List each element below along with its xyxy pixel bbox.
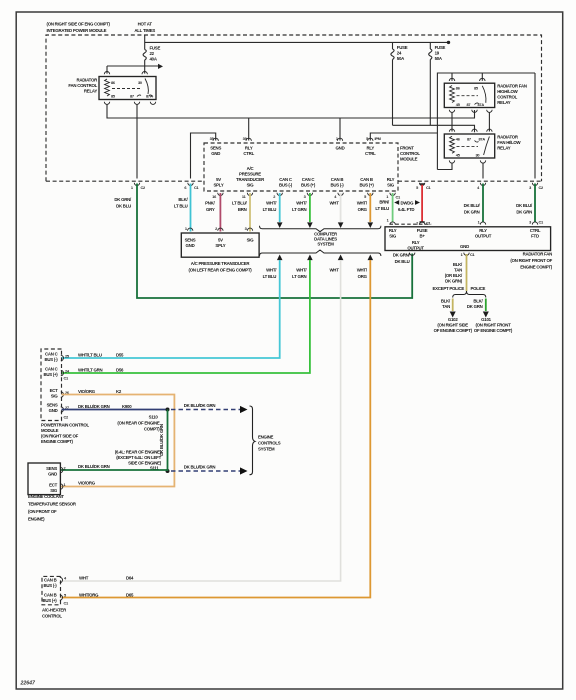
radiator fan hi/low relay R3 bbox=[444, 129, 494, 163]
svg-text:SIG: SIG bbox=[387, 183, 395, 188]
svg-text:TAN: TAN bbox=[442, 304, 450, 309]
svg-text:A/C: A/C bbox=[247, 166, 255, 171]
svg-text:87A: 87A bbox=[479, 136, 486, 141]
dashed wire DK BLU/DK GRN S110 to engine controls system bbox=[171, 403, 248, 413]
A/C heater control dashed box bbox=[42, 576, 61, 604]
svg-text:ENGINE: ENGINE bbox=[258, 435, 274, 440]
svg-text:D64: D64 bbox=[126, 576, 134, 581]
svg-text:50A: 50A bbox=[435, 56, 443, 61]
svg-text:ECT: ECT bbox=[50, 388, 59, 393]
svg-text:CTRL: CTRL bbox=[365, 151, 376, 156]
svg-text:87A: 87A bbox=[478, 102, 485, 107]
svg-text:DK BLU/: DK BLU/ bbox=[516, 203, 533, 208]
svg-text:BUS (-): BUS (-) bbox=[45, 357, 59, 362]
wire BLK/TAN ground feed from radiator fan GND bbox=[445, 254, 467, 291]
svg-text:(ON REAR OF ENGINE: (ON REAR OF ENGINE bbox=[117, 421, 159, 426]
svg-text:CAN B: CAN B bbox=[44, 578, 57, 583]
wire WHT/LT BLU CAN C minus lower to PCM bbox=[62, 255, 283, 359]
svg-text:DK BLU/DK GRN: DK BLU/DK GRN bbox=[78, 404, 110, 409]
svg-text:WHT/: WHT/ bbox=[266, 268, 277, 273]
svg-text:SPLY: SPLY bbox=[214, 183, 224, 188]
wire DK GRN/DK BLU from C2 pin 1 to radiator fan RLY OUTPUT bbox=[114, 184, 412, 299]
svg-text:30: 30 bbox=[138, 80, 142, 85]
svg-text:DK BLU/DK GRN: DK BLU/DK GRN bbox=[78, 464, 110, 469]
svg-text:ENGINE COMPT): ENGINE COMPT) bbox=[520, 265, 553, 270]
wire PNK/GRY FCM pin16 to transducer pin 2 bbox=[205, 193, 220, 232]
svg-text:CAN B: CAN B bbox=[44, 593, 57, 598]
svg-text:DK GRN: DK GRN bbox=[467, 304, 483, 309]
svg-text:SYSTEM: SYSTEM bbox=[317, 242, 334, 247]
FCM top pin arcs bbox=[213, 138, 373, 141]
svg-text:ENGINE COMPT): ENGINE COMPT) bbox=[41, 439, 74, 444]
svg-text:FUSE: FUSE bbox=[397, 45, 408, 50]
wire WHT CAN B minus upper bbox=[329, 193, 343, 228]
svg-text:FUSE: FUSE bbox=[417, 228, 428, 233]
A/C heater control label bbox=[42, 608, 67, 619]
wire LT BLU/BRN FCM pin11 to transducer pin 3 bbox=[232, 193, 250, 232]
IPM connector C1 pin 5 / C1 pin 4 / C2 pin 3 bbox=[416, 183, 544, 190]
svg-text:GND: GND bbox=[48, 472, 57, 477]
Front Control Module dashed box bbox=[204, 143, 398, 191]
node HOT AT ALL TIMES bbox=[134, 22, 155, 34]
IPM connector C2 pin 1 bbox=[131, 183, 146, 190]
svg-text:RELAY: RELAY bbox=[84, 89, 97, 94]
svg-text:GRY: GRY bbox=[206, 207, 215, 212]
svg-text:WHT/: WHT/ bbox=[357, 201, 368, 206]
PCM pin arcs and numbers bbox=[61, 354, 70, 420]
svg-text:ENGINE COOLANT: ENGINE COOLANT bbox=[28, 494, 64, 499]
svg-text:BRN: BRN bbox=[238, 207, 247, 212]
svg-text:87: 87 bbox=[130, 94, 134, 99]
svg-text:MODULE: MODULE bbox=[400, 157, 418, 162]
svg-text:87A: 87A bbox=[146, 94, 153, 99]
svg-text:BUS (+): BUS (+) bbox=[43, 372, 58, 377]
ground G101 bbox=[474, 317, 513, 333]
PCM label bbox=[41, 423, 89, 445]
svg-text:BLK/: BLK/ bbox=[441, 299, 451, 304]
radiator fan bottom pin arcs bbox=[410, 252, 476, 257]
radiator fan label bbox=[510, 252, 552, 270]
svg-text:TEMPERATURE SENSOR: TEMPERATURE SENSOR bbox=[28, 502, 77, 507]
fuse 19 50A bbox=[429, 42, 446, 125]
svg-text:FUSE: FUSE bbox=[150, 46, 161, 51]
svg-text:FAN HI/LOW: FAN HI/LOW bbox=[497, 140, 521, 145]
svg-text:CONTROLS: CONTROLS bbox=[258, 441, 281, 446]
svg-text:RLY: RLY bbox=[387, 177, 395, 182]
svg-text:PNK/: PNK/ bbox=[205, 201, 215, 206]
svg-text:MODULE: MODULE bbox=[41, 428, 59, 433]
A/C pressure transducer box bbox=[181, 226, 259, 257]
computer data lines lower brace bbox=[260, 250, 381, 256]
svg-text:LT BLU/: LT BLU/ bbox=[232, 201, 248, 206]
Integrated Power Module label bbox=[47, 22, 111, 34]
Front Control Module label bbox=[400, 146, 420, 162]
svg-text:ALL TIMES: ALL TIMES bbox=[134, 28, 155, 33]
wire VIO/ORG ECT signal loop PCM pin 26 to ECT sensor pin 1 bbox=[61, 395, 174, 487]
svg-text:GND: GND bbox=[336, 146, 345, 151]
splice S110 bbox=[117, 408, 169, 432]
Integrated Power Module dashed box bbox=[46, 35, 542, 181]
svg-text:87: 87 bbox=[467, 136, 471, 141]
svg-text:D56: D56 bbox=[116, 368, 124, 373]
svg-text:6.4L FTD: 6.4L FTD bbox=[398, 207, 414, 212]
splice S111 bbox=[150, 466, 170, 474]
svg-text:LT BLU: LT BLU bbox=[375, 206, 389, 211]
wire BRN/LT BLU FCM RLY SIG to radiator fan bbox=[375, 193, 392, 223]
svg-text:DWDG: DWDG bbox=[401, 201, 415, 206]
svg-text:(ON RIGHT FRONT OF: (ON RIGHT FRONT OF bbox=[510, 258, 552, 263]
svg-text:TRANSDUCER: TRANSDUCER bbox=[236, 177, 265, 182]
svg-text:WHT/: WHT/ bbox=[296, 201, 307, 206]
svg-text:WHT/: WHT/ bbox=[266, 201, 277, 206]
wire DK BLU/DK GRN IPM pin 4 to radiator fan RLY OUTPUT bbox=[464, 184, 483, 225]
engine coolant temperature sensor box bbox=[28, 463, 67, 495]
svg-text:DK GRN/: DK GRN/ bbox=[393, 253, 411, 258]
label 6.4L engine note bbox=[115, 450, 162, 466]
svg-text:POWERTRAIN CONTROL: POWERTRAIN CONTROL bbox=[41, 423, 89, 428]
svg-text:SIG: SIG bbox=[389, 233, 397, 238]
engine coolant temperature sensor label bbox=[28, 494, 77, 522]
svg-text:RELAY: RELAY bbox=[497, 100, 510, 105]
svg-text:ENGINE): ENGINE) bbox=[28, 517, 45, 522]
svg-text:K2: K2 bbox=[116, 389, 122, 394]
svg-text:SIG: SIG bbox=[50, 488, 58, 493]
wire relay R2 coil low to relay R3 coil bbox=[451, 112, 453, 132]
svg-text:K900: K900 bbox=[122, 404, 132, 409]
svg-text:(ON FRONT OF: (ON FRONT OF bbox=[28, 509, 57, 514]
svg-text:WHT/: WHT/ bbox=[357, 268, 368, 273]
fuse 22 40A bbox=[143, 35, 160, 66]
svg-text:40A: 40A bbox=[150, 57, 158, 62]
svg-text:RLY: RLY bbox=[412, 240, 420, 245]
svg-text:CONTROL: CONTROL bbox=[400, 151, 420, 156]
FCM internal labels bottom row bbox=[214, 166, 395, 188]
svg-text:S110: S110 bbox=[149, 415, 159, 420]
wire WHT/LT BLU CAN C minus upper bbox=[263, 193, 283, 228]
svg-text:CAN C: CAN C bbox=[302, 177, 316, 182]
fuse 24 50A bbox=[391, 42, 408, 125]
A/C heater control internal labels bbox=[42, 578, 57, 604]
svg-text:CAN B: CAN B bbox=[360, 177, 373, 182]
FCM top pin numbers bbox=[210, 136, 381, 141]
svg-text:BLK/: BLK/ bbox=[473, 299, 483, 304]
svg-text:ECT: ECT bbox=[49, 483, 58, 488]
PCM internal labels bbox=[43, 352, 58, 414]
svg-text:FTD: FTD bbox=[531, 233, 539, 238]
FCM pin 35 wire to IPM connector C1 pin 6 bbox=[191, 133, 216, 179]
svg-text:DK GRN: DK GRN bbox=[516, 210, 532, 215]
svg-text:COMPT): COMPT) bbox=[144, 427, 160, 432]
svg-text:GND: GND bbox=[186, 243, 195, 248]
svg-text:DK BLU: DK BLU bbox=[116, 204, 131, 209]
svg-text:CONTROL: CONTROL bbox=[497, 95, 517, 100]
svg-text:LT BLU: LT BLU bbox=[263, 274, 277, 279]
svg-text:SIG: SIG bbox=[247, 183, 255, 188]
svg-text:HIGH/LOW: HIGH/LOW bbox=[497, 89, 518, 94]
wire DK BLU/DK GRN PCM pin 27 to splice S110 bbox=[62, 409, 168, 411]
svg-text:BLK/: BLK/ bbox=[178, 197, 188, 202]
svg-text:OUTPUT: OUTPUT bbox=[407, 245, 424, 250]
svg-text:BLK/: BLK/ bbox=[453, 262, 463, 267]
svg-text:RLY: RLY bbox=[367, 146, 375, 151]
computer data lines system label bbox=[314, 232, 338, 247]
svg-text:SPLY: SPLY bbox=[215, 243, 225, 248]
svg-text:FAN CONTROL: FAN CONTROL bbox=[68, 83, 97, 88]
radiator fan control relay label bbox=[68, 78, 98, 94]
svg-text:DK GRN/: DK GRN/ bbox=[114, 197, 132, 202]
FCM bottom pin numbers bbox=[212, 194, 401, 200]
svg-text:B+: B+ bbox=[420, 233, 426, 238]
wire WHT CAN B minus lower to A/C heater control bbox=[62, 255, 344, 582]
engine controls system brace bbox=[250, 406, 281, 475]
except police / police alternate ground branches bbox=[432, 286, 485, 298]
svg-text:DK BLU/DK GRN: DK BLU/DK GRN bbox=[184, 403, 216, 408]
svg-text:ORG: ORG bbox=[358, 207, 368, 212]
svg-text:RLY: RLY bbox=[245, 146, 253, 151]
wire relay R1 coil to FCM pins 39/1 and relay R2 common bbox=[107, 104, 475, 141]
svg-text:DK BLU/DK GRN: DK BLU/DK GRN bbox=[184, 465, 216, 470]
powertrain control module dashed box bbox=[41, 349, 62, 421]
PCM wire designation labels bbox=[78, 353, 132, 410]
svg-text:A/C PRESSURE TRANSDUCER: A/C PRESSURE TRANSDUCER bbox=[191, 261, 251, 266]
svg-text:RELAY: RELAY bbox=[497, 146, 510, 151]
wire relay R1 switch output to IPM connector C2 pin 1 bbox=[136, 104, 138, 179]
wire WHT/ORG CAN B plus upper bbox=[357, 193, 373, 228]
wire WHT/LT GRN CAN C plus upper bbox=[292, 193, 313, 228]
svg-text:CTRL: CTRL bbox=[530, 228, 541, 233]
svg-text:87: 87 bbox=[467, 102, 471, 107]
svg-text:WHT/LT BLU: WHT/LT BLU bbox=[78, 353, 102, 358]
svg-text:RADIATOR: RADIATOR bbox=[497, 135, 519, 140]
wire WHT/ORG CAN B plus lower to A/C heater control bbox=[62, 255, 374, 598]
svg-text:LT BLU: LT BLU bbox=[174, 204, 188, 209]
svg-text:SENS: SENS bbox=[46, 466, 57, 471]
A/C heater control pin arcs and numbers bbox=[60, 576, 69, 606]
svg-text:BUS (-): BUS (-) bbox=[331, 183, 345, 188]
wire B+ branch to right fuses bbox=[145, 41, 451, 44]
radiator fan control relay R1 bbox=[99, 71, 156, 104]
wire BLK/LT BLU C1 pin6 to A/C pressure transducer pin 1 bbox=[174, 184, 191, 232]
svg-text:BRN/: BRN/ bbox=[379, 200, 390, 205]
svg-text:CAN B: CAN B bbox=[331, 177, 344, 182]
svg-text:22647: 22647 bbox=[20, 681, 37, 687]
wire BLK/DK GRN police ground bbox=[467, 299, 489, 318]
svg-text:HOT AT: HOT AT bbox=[138, 22, 153, 27]
wire FCM RLY CTRL pin 5 to feed node bbox=[370, 133, 437, 141]
svg-text:30: 30 bbox=[476, 153, 480, 158]
svg-text:POLICE: POLICE bbox=[471, 286, 486, 291]
svg-text:GND: GND bbox=[211, 151, 220, 156]
svg-text:SENS: SENS bbox=[47, 403, 58, 408]
svg-text:IPM: IPM bbox=[375, 136, 381, 141]
svg-text:GND: GND bbox=[49, 408, 58, 413]
svg-text:VIO/ORG: VIO/ORG bbox=[78, 389, 96, 394]
svg-text:INTEGRATED POWER MODULE: INTEGRATED POWER MODULE bbox=[47, 28, 107, 33]
svg-text:OF ENGINE COMPT): OF ENGINE COMPT) bbox=[434, 328, 473, 333]
IPM connector C1 pin 6 bbox=[184, 183, 199, 190]
svg-text:50A: 50A bbox=[397, 56, 405, 61]
svg-text:WHT: WHT bbox=[329, 268, 339, 273]
svg-text:5V: 5V bbox=[216, 177, 221, 182]
radiator fan hi/low relay label bbox=[497, 135, 521, 151]
svg-text:SYSTEM: SYSTEM bbox=[258, 447, 275, 452]
svg-text:TAN: TAN bbox=[454, 268, 462, 273]
svg-text:RADIATOR FAN: RADIATOR FAN bbox=[523, 252, 553, 257]
svg-text:LT GRN: LT GRN bbox=[292, 207, 306, 212]
svg-text:(ON RIGHT SIDE: (ON RIGHT SIDE bbox=[437, 323, 468, 328]
svg-text:(ON LEFT REAR OF ENG COMPT): (ON LEFT REAR OF ENG COMPT) bbox=[189, 267, 253, 272]
svg-text:(ON RIGHT SIDE OF: (ON RIGHT SIDE OF bbox=[41, 434, 79, 439]
svg-text:D65: D65 bbox=[126, 593, 134, 598]
svg-text:CAN C: CAN C bbox=[279, 177, 293, 182]
svg-text:SENS: SENS bbox=[185, 238, 196, 243]
svg-text:(6.4L: REAR OF ENGINE): (6.4L: REAR OF ENGINE) bbox=[115, 450, 162, 455]
svg-text:G101: G101 bbox=[481, 317, 491, 322]
svg-text:OF ENGINE COMPT): OF ENGINE COMPT) bbox=[474, 328, 513, 333]
svg-text:BUS (+): BUS (+) bbox=[359, 183, 374, 188]
wire designation labels at A/C heater control bbox=[79, 576, 134, 598]
svg-text:LT GRN: LT GRN bbox=[292, 274, 306, 279]
wire RED IPM C1 pin 5 to radiator fan FUSE B+ bbox=[416, 184, 431, 226]
svg-text:DK BLU/: DK BLU/ bbox=[464, 203, 481, 208]
svg-text:BUS (-): BUS (-) bbox=[44, 583, 58, 588]
svg-text:(EXCEPT 6.4L: ON LEFT: (EXCEPT 6.4L: ON LEFT bbox=[116, 455, 161, 460]
svg-text:PRESSURE: PRESSURE bbox=[239, 172, 261, 177]
svg-text:RADIATOR: RADIATOR bbox=[76, 78, 98, 83]
svg-text:A/C-HEATER: A/C-HEATER bbox=[42, 608, 67, 613]
wire relay R3 pin 30 to IPM connector bbox=[482, 163, 484, 179]
svg-text:DK GRN): DK GRN) bbox=[445, 279, 463, 284]
svg-text:WHT/LT GRN: WHT/LT GRN bbox=[78, 368, 103, 373]
svg-text:D55: D55 bbox=[116, 353, 124, 358]
FCM bottom pin arcs bbox=[218, 193, 396, 196]
svg-text:(OR BLK/: (OR BLK/ bbox=[445, 273, 463, 278]
svg-text:WHT/ORG: WHT/ORG bbox=[79, 593, 99, 598]
radiator fan high/low control relay label bbox=[497, 84, 527, 106]
svg-text:LT BLU: LT BLU bbox=[263, 207, 277, 212]
svg-text:WHT: WHT bbox=[79, 576, 89, 581]
radiator fan motor module box bbox=[385, 222, 551, 251]
svg-text:5V: 5V bbox=[218, 238, 223, 243]
svg-text:GND: GND bbox=[460, 244, 469, 249]
A/C pressure transducer label bbox=[189, 261, 253, 273]
svg-text:CONTROL: CONTROL bbox=[42, 614, 62, 619]
svg-text:VIO/ORG: VIO/ORG bbox=[78, 481, 96, 486]
svg-text:SENS: SENS bbox=[210, 146, 221, 151]
svg-text:ORG: ORG bbox=[358, 274, 368, 279]
ground G102 bbox=[434, 317, 473, 333]
wire feed vertical to top bus and relay R3 coil bbox=[437, 73, 535, 179]
svg-text:BUS (+): BUS (+) bbox=[301, 183, 316, 188]
svg-text:(ON RIGHT FRONT: (ON RIGHT FRONT bbox=[475, 323, 511, 328]
svg-text:WHT/: WHT/ bbox=[296, 268, 307, 273]
svg-text:DK BLU: DK BLU bbox=[395, 259, 410, 264]
computer data lines upper brace bbox=[260, 226, 381, 232]
svg-text:CAN C: CAN C bbox=[45, 367, 59, 372]
wire fuse22 to relay R1 common, stub with junction dot bbox=[107, 64, 163, 74]
wire DK BLU/DK GRN IPM C2 pin 3 to radiator fan CTRL FTD bbox=[516, 184, 544, 225]
svg-text:OUTPUT: OUTPUT bbox=[475, 233, 492, 238]
svg-text:FRONT: FRONT bbox=[400, 146, 414, 151]
wire DK GRN/DK BLU radiator fan RLY OUTPUT label bbox=[393, 253, 411, 265]
note DWDG 6.4L FTD with arrows bbox=[394, 200, 420, 212]
wire relay R2 87A to relay R3 bbox=[488, 112, 490, 132]
svg-text:WHT: WHT bbox=[329, 201, 339, 206]
svg-text:(ON RIGHT SIDE OF ENG COMPT): (ON RIGHT SIDE OF ENG COMPT) bbox=[47, 22, 111, 27]
svg-text:G102: G102 bbox=[448, 317, 458, 322]
svg-text:DK GRN: DK GRN bbox=[464, 210, 480, 215]
svg-text:SIG: SIG bbox=[51, 394, 59, 399]
wire WHT/LT GRN CAN C plus lower to PCM bbox=[62, 255, 313, 374]
svg-text:BUS (+): BUS (+) bbox=[42, 598, 57, 603]
svg-text:RLY: RLY bbox=[389, 228, 397, 233]
svg-text:FUSE: FUSE bbox=[435, 45, 446, 50]
FCM internal labels top row bbox=[210, 146, 376, 157]
radiator fan high/low control relay R2 bbox=[444, 78, 494, 112]
dashed wire DK BLU/DK GRN S111 to engine controls system bbox=[171, 465, 248, 475]
wire fuse 24 to relay R3 common bbox=[393, 125, 475, 132]
svg-text:RADIATOR FAN: RADIATOR FAN bbox=[497, 84, 527, 89]
svg-text:CAN C: CAN C bbox=[45, 352, 59, 357]
svg-text:RLY: RLY bbox=[479, 228, 487, 233]
wire DK BLU/DK GRN ECT sensor pin 2 to splice S111 bbox=[61, 464, 168, 471]
svg-text:BUS (-): BUS (-) bbox=[279, 183, 293, 188]
wire DK BLU/DK GRN splice S110 to splice S111 vertical bbox=[159, 410, 168, 472]
svg-text:CTRL: CTRL bbox=[243, 151, 254, 156]
wire BLK/TAN except police ground bbox=[441, 299, 456, 318]
svg-text:SIG: SIG bbox=[247, 238, 255, 243]
svg-text:EXCEPT POLICE: EXCEPT POLICE bbox=[432, 286, 464, 291]
